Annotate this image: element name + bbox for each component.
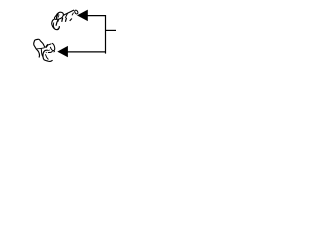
B1 thread line 2 [72,13,74,16]
B2 flange top-right rim arc [48,51,53,53]
top leader line [87,15,106,17]
B2 flange inner top tick [45,51,48,54]
B1 thread tick d [62,18,63,22]
bolt B1 (top) [52,10,79,30]
B2 shaft tip cap [50,43,54,50]
B1 hex inner facet line [57,13,59,19]
B1 hex inner facet line 2 [58,15,59,18]
B1 flange outer rim [52,19,60,29]
B1 thread tick e [65,18,66,22]
bottom arrow [57,46,68,57]
B2 shaft top edge [48,44,51,45]
bottom leader line [67,51,106,53]
B2 head silhouette: top, left side, down to flange [34,39,40,57]
B1 thread line 1 [65,13,67,18]
B2 hex facet line [41,48,43,57]
middle stub line [106,29,117,31]
bracket vertical line [105,15,107,54]
B2 hex bottom edge [36,48,44,49]
B1 thread tick f [70,19,72,21]
B2 flange outer rim [43,50,52,61]
top arrow [77,10,88,22]
B1 flange inner-left rim [53,23,54,29]
B2 flange inner rim [45,54,48,59]
B1 shaft top edge [60,10,74,17]
B1 flange inner rim [57,27,60,30]
B1 hex facet to flange [56,20,58,26]
bolt B2 (bottom) [34,39,55,61]
B1 shaft tip cap [74,10,78,15]
B2 shaft thread line [46,44,48,47]
B2 head right edge [39,39,45,47]
B1 thread tick c [58,18,60,22]
B1 hex head top face [54,12,63,19]
B2 shaft bottom edge [48,49,50,52]
